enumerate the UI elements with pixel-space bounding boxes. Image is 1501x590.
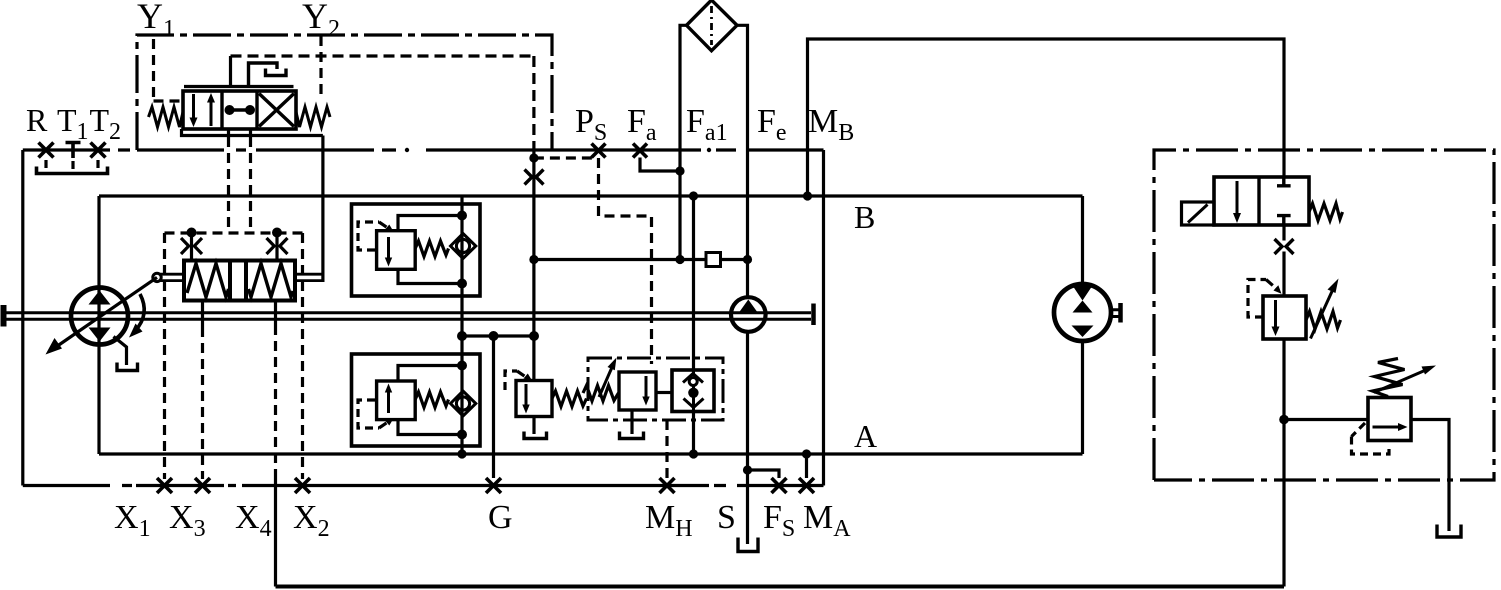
svg-text:X3: X3: [169, 499, 206, 542]
node: relief B lower junction: [457, 279, 467, 289]
pilot valve U1: right spring: [296, 107, 330, 127]
wire: A rail from inner block to motor: [99, 452, 1083, 455]
wire: x534 supply line from Y2 node down to compensator: [532, 150, 535, 381]
pilot valve U1: 3-position body: [183, 91, 296, 129]
spring: DA valve adjustable spring: [583, 386, 619, 402]
spring: relief A spring: [415, 392, 448, 408]
svg-text:R: R: [26, 102, 48, 138]
solenoid: coil box with slash: [1182, 202, 1215, 225]
wire: boost check line from B rail down to A rail: [692, 196, 695, 370]
tank: pump case drain tank: [117, 363, 138, 371]
check: lower ball and seat: [684, 388, 704, 408]
port G: X mark: [486, 478, 501, 493]
node: relief A lower junction: [457, 430, 467, 440]
svg-text:A: A: [854, 418, 877, 454]
wire: pump casing bottom port line y=485.5: [23, 484, 824, 487]
pilot valve U1: right position crossed X: [259, 94, 294, 127]
wire: X4 line lower solid part down to bottom line: [274, 470, 277, 587]
wire: servo port X3 stub and dashed drop: [201, 301, 204, 328]
pilot valve U1: left position up arrow: [207, 93, 215, 126]
wire: relief A vertical branch: [460, 296, 463, 454]
port FS: X mark: [772, 478, 787, 493]
svg-text:T1: T1: [57, 102, 89, 145]
wire: charge gallery horizontal link: [462, 334, 534, 337]
shaft: main drive shaft double line: [2, 313, 811, 320]
solenoid valve: right position blocked T stubs: [1277, 177, 1291, 225]
wire: relief B dashed pilot: [358, 222, 379, 250]
filter: suction filter diamond: [687, 0, 738, 51]
pump P1: swivel direction curved arrow: [129, 294, 144, 338]
port MH: X mark: [660, 478, 675, 493]
node: boost line junction on B rail: [689, 191, 698, 200]
solenoid valve: divider: [1257, 177, 1260, 225]
enclosure: servo positioner dashed box top: [165, 231, 303, 234]
shaft: right shaft end bar at charge pump: [811, 304, 816, 326]
tank bracket: common drain gallery below R T1 T2: [37, 167, 108, 174]
node: A rail junction below relief A: [457, 449, 466, 458]
wire: compensator drain to tank: [532, 417, 535, 435]
actuator: servo stroking cylinder body: [184, 261, 295, 301]
pilot valve U1: compartment dividers: [222, 91, 257, 129]
wire: pump casing left edge: [21, 150, 24, 486]
valve: flushing solenoid valve body: [1214, 177, 1309, 225]
pilot valve U1: bottom rail with feedback corner: [182, 129, 323, 136]
wire: pilot valve port a dashed drop: [227, 137, 230, 231]
node: gauge port G junction: [489, 331, 499, 341]
pivot: swash plate link pin: [153, 273, 161, 281]
enclosure: servo positioner dashed box right edge / X2 line: [301, 233, 304, 479]
wire: relief B valve loop: [398, 216, 462, 284]
tank: S line suction tank: [738, 538, 758, 552]
tank: DA valve drain tank: [620, 432, 644, 439]
spring: reducing valve adjustable spring: [1306, 312, 1341, 330]
orifice: restrictor in x534 line: [525, 170, 544, 185]
wire: motor A drop: [1081, 341, 1084, 455]
wire: Fe line from filter right down to charge pump: [737, 25, 748, 297]
wire: Y1 pilot dashed line: [154, 39, 182, 101]
pump P1: top flow triangle: [89, 291, 111, 305]
compensator: internal down arrow: [522, 384, 529, 414]
dash-dot enclosure: pilot control box top-left: [137, 35, 552, 150]
spring: relief valve adjustable spring above: [1373, 359, 1405, 397]
port T1: plugged stub: [66, 143, 81, 159]
node: MB junction on B rail: [803, 191, 812, 200]
wire: mechanical feedback link valve to servo rod: [321, 136, 324, 283]
wire: pump casing boundary top dash-dot line y=150: [23, 148, 824, 152]
wire: MA stub from A rail: [805, 454, 808, 478]
wire: dashed drop to casing at x=534: [532, 56, 535, 150]
valve: boost relief valve body: [1368, 398, 1411, 441]
motor M1: lower triangle: [1072, 326, 1094, 338]
enclosure: DA valve dash-dot box: [588, 358, 723, 420]
wire: motor B drop: [1081, 196, 1084, 285]
wire: DA valve drain to tank: [630, 410, 633, 434]
wire: pump case drain: [114, 337, 127, 366]
svg-text:B: B: [854, 199, 875, 235]
port T2: X mark: [91, 143, 106, 158]
solenoid valve: left position down arrow: [1233, 181, 1241, 223]
orifice: plate orifice square in LS gallery: [706, 253, 721, 267]
relief valve: internal arrow right: [1373, 423, 1408, 431]
rod: servo piston rod double line: [160, 274, 323, 280]
tank: flushing relief drain tank: [1437, 525, 1461, 538]
valve assembly: port relief B-side outer box: [352, 204, 481, 296]
valve: DA control valve body: [619, 372, 656, 410]
node: compensator feed junction: [529, 331, 539, 341]
pump P2: charge pump circle: [731, 297, 766, 332]
wire: Fa elbow to Fa1 line: [640, 158, 680, 172]
wire: relief B vertical branch: [460, 196, 463, 296]
dash-dot enclosure: flushing valve block right: [1154, 150, 1494, 480]
svg-text:MH: MH: [645, 499, 693, 542]
op pilot valve U1: top rail: [184, 85, 294, 88]
spring: compensator spring: [552, 391, 587, 407]
orifice: left servo restrictor: [181, 236, 202, 260]
filter: dash-dot element line: [710, 6, 713, 45]
wire: right block main vertical lower part to bottom line: [1282, 339, 1285, 587]
pilot valve U1: left position down arrow: [190, 94, 198, 127]
node: relief B upper junction: [457, 211, 467, 221]
pump P1: variable displacement arrow: [46, 277, 158, 354]
svg-text:MA: MA: [803, 499, 851, 542]
valve: boost pressure reducing valve body: [1263, 296, 1306, 339]
svg-text:S: S: [717, 499, 736, 536]
valve: LS pressure compensator body: [516, 381, 552, 417]
wire: pilot valve supply riser: [229, 56, 232, 87]
orifice: flushing restrictor: [1275, 239, 1294, 254]
check valve: anti-cavitation B diamond and ball: [451, 234, 476, 259]
wire: servo port X4 stub and dashed drop: [274, 301, 277, 326]
check valve: boost double check cell box: [672, 370, 714, 412]
svg-text:PS: PS: [575, 103, 607, 146]
wire: LS gallery horizontal line y=259.5: [534, 258, 748, 261]
spring: servo right centering spring: [249, 264, 294, 298]
motor M1: hydraulic motor circle: [1054, 284, 1111, 341]
pump P2: flow triangle: [739, 300, 758, 313]
port X3: X mark: [195, 478, 210, 493]
wire: bottom tank return line: [276, 585, 1285, 589]
wire: PS pilot dashed drop and jog to DA valve: [599, 158, 652, 364]
node: junction x534 at LS gallery y259: [529, 255, 538, 264]
svg-text:X1: X1: [114, 499, 151, 542]
svg-text:Fe: Fe: [757, 103, 787, 146]
orifice: right servo restrictor: [267, 236, 288, 260]
wire: line to reducing valve: [1282, 252, 1285, 297]
port Fa: X mark: [633, 144, 647, 158]
reducing valve: internal down arrow: [1272, 300, 1280, 336]
node: junction x534 below casing line: [529, 153, 538, 162]
wire: reducing valve dashed pilot: [1248, 280, 1266, 318]
port R: X mark on casing line: [39, 143, 54, 158]
actuator: servo piston plates: [230, 261, 246, 301]
node: charge gallery junction at B branch: [457, 331, 467, 341]
svg-text:Fa1: Fa1: [686, 103, 728, 146]
svg-text:Y1: Y1: [137, 0, 175, 42]
spring: relief B spring: [415, 241, 448, 257]
spring: solenoid valve return spring: [1309, 204, 1343, 221]
arrow: relief spring adjustment arrow: [1374, 366, 1436, 393]
valve: relief B internal down arrow: [385, 237, 392, 267]
node: relief A upper junction: [457, 361, 467, 371]
check valve: anti-cavitation A diamond and ball: [451, 391, 476, 416]
shaft: left shaft end bar: [1, 305, 7, 327]
check: upper ball and seat: [683, 370, 703, 412]
port X1: X mark: [157, 478, 172, 493]
wire: inner block left edge / pump B-A line: [97, 196, 100, 454]
svg-text:MB: MB: [808, 103, 854, 146]
wire: compensator dashed pilot with arrow: [505, 371, 517, 390]
node: FS tap junction: [743, 465, 752, 474]
wire: pilot valve port b dashed drop: [249, 137, 252, 231]
motor M1: upper hourglass triangles: [1073, 286, 1093, 301]
wire: Fa1 line from filter left: [680, 25, 687, 259]
arrow: reducing valve adjustment arrow: [1311, 279, 1339, 339]
wire: pump casing right edge: [822, 150, 825, 486]
valve: relief B cartridge body: [377, 231, 416, 270]
wire: relief valve dashed pilot loop: [1352, 423, 1390, 454]
node: relief tap junction: [1279, 415, 1289, 425]
node: Fa to Fa1 junction: [675, 166, 684, 175]
pilot valve U1: centre position blocked dots: [225, 105, 256, 115]
svg-text:X2: X2: [293, 499, 330, 542]
valve: relief A internal up arrow: [385, 384, 392, 414]
port X2: X mark: [295, 478, 310, 493]
arrow: DA spring adjustment arrow: [599, 358, 617, 398]
wire: MH gauge dashed line from DA box: [665, 420, 668, 478]
valve: relief A cartridge body: [377, 381, 416, 420]
wire: charge pump outlet down / S line: [746, 332, 749, 545]
svg-text:Y2: Y2: [302, 0, 340, 42]
node: Fe junction on LS gallery: [743, 255, 752, 264]
node: servo pilot right junction: [272, 228, 282, 238]
pump P1: main variable pump circle: [71, 288, 128, 345]
wire: relief A dashed pilot: [358, 400, 379, 428]
wire: Y2 pilot dashed line: [319, 36, 322, 97]
wire: to relief valve inlet: [1284, 418, 1368, 421]
svg-text:Fa: Fa: [627, 103, 657, 146]
svg-text:G: G: [488, 499, 513, 536]
wire: B rail from inner block to motor: [99, 194, 1083, 197]
wire: long dashed pilot line y=56 to node above orifice: [231, 54, 534, 57]
node: servo pilot left junction: [187, 228, 197, 238]
wire: relief A valve loop: [398, 366, 462, 435]
spring: servo left centering spring: [187, 264, 229, 298]
wire: MB riser and top loop to right block: [808, 39, 1285, 196]
pump P1: bottom flow triangle: [89, 328, 111, 342]
wire: DA valve to boost check cell: [656, 391, 672, 394]
wire: relief outlet to tank: [1411, 420, 1449, 532]
node: boost line junction on A rail: [689, 449, 698, 458]
wire: FS elbow: [748, 470, 780, 478]
wire: dashed link node534 to PS: [534, 156, 596, 159]
DA valve: internal down arrow: [642, 376, 649, 406]
port PS: X mark: [592, 144, 606, 158]
svg-text:T2: T2: [90, 102, 122, 145]
wire: G gauge line: [492, 336, 495, 478]
svg-text:X4: X4: [235, 499, 272, 542]
svg-text:FS: FS: [763, 499, 795, 542]
wire: line below solenoid valve: [1282, 225, 1285, 241]
shaft: motor output shaft stub: [1111, 310, 1119, 317]
pilot valve U1: left spring: [149, 107, 184, 127]
pilot valve U1: detent hook symbol: [249, 63, 287, 87]
wire: dashed drain stubs below R T1 T2: [46, 160, 98, 172]
valve assembly: port relief A-side outer box: [352, 354, 481, 446]
node: Fa1 junction on LS gallery: [675, 255, 684, 264]
enclosure: servo positioner dashed box left edge / X1 line: [163, 233, 166, 479]
port MA: X mark: [799, 478, 814, 493]
tank: compensator drain tank: [524, 432, 547, 439]
node: MA junction on A rail: [802, 449, 811, 458]
